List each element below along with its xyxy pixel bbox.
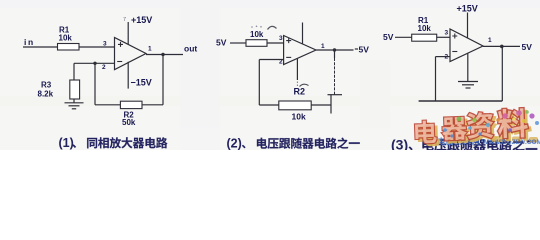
wire: bottom feedback rail circuit 3 xyxy=(419,100,503,102)
ground symbol circuit 1 xyxy=(65,103,84,109)
resistor R1 (10k) circuit 2 xyxy=(246,40,267,47)
svg-text:3: 3 xyxy=(279,35,283,42)
svg-text:2: 2 xyxy=(102,64,106,71)
ground symbol circuit 3 xyxy=(458,82,478,89)
op-amp U1 triangle with +/- marks xyxy=(115,38,147,70)
svg-text:1: 1 xyxy=(148,46,152,53)
junction: inverting input node circuit 1 xyxy=(93,62,96,65)
op-amp U2 triangle with +/- marks xyxy=(284,36,316,65)
wire: left feedback vertical circuit 3 xyxy=(435,57,437,101)
wire: output wire U2 pin 1 xyxy=(316,49,358,50)
wire: pin 2 wire left circuit 2 xyxy=(259,59,283,61)
svg-text:1: 1 xyxy=(321,43,325,50)
junction: output node circuit 2 xyxy=(333,48,336,51)
wire: feedback vertical from output node down (dashed) xyxy=(334,50,336,95)
wire: short vertical from tick to bottom wire xyxy=(330,95,332,105)
caption (1) non-inverting amplifier circuit xyxy=(59,136,168,150)
wire: right feedback vertical up to output node circuit 3 xyxy=(501,46,503,101)
wire: +15V supply line to U1 pin 7 xyxy=(127,22,129,44)
wire: horizontal tick at feedback bend xyxy=(328,94,343,96)
wire: R3 to ground stem xyxy=(73,99,75,103)
annotation: faint dots above 10k xyxy=(251,26,262,28)
svg-text:−15V: −15V xyxy=(131,78,152,88)
wire: ground stem from U3 bottom edge xyxy=(467,54,469,82)
wire: input wire from 5V through R1 to U3 pin 3 xyxy=(395,36,450,38)
svg-text:R2: R2 xyxy=(294,86,306,96)
caption (2) voltage follower circuit one xyxy=(227,137,360,151)
resistor R1 (10k) circuit 1 xyxy=(58,44,80,51)
wire: -15V supply line to U1 pin 4 xyxy=(127,62,129,89)
svg-text:5V: 5V xyxy=(522,42,533,52)
wire: pin 2 wire to R3 branch xyxy=(74,62,115,64)
svg-text:(1): (1) xyxy=(59,136,74,150)
svg-text:10k: 10k xyxy=(292,111,306,121)
wire: +15V supply line U3 xyxy=(467,13,469,39)
svg-text:(3): (3) xyxy=(391,137,408,151)
resistor R1 (10k) circuit 3 xyxy=(412,34,437,41)
wire: stub below bottom wire circuit 2 xyxy=(330,105,332,114)
wire: positive supply stub U2 xyxy=(302,23,304,44)
resistor R2 (10k) circuit 2 xyxy=(279,101,311,110)
svg-text:5V: 5V xyxy=(383,32,394,42)
svg-text:3: 3 xyxy=(445,30,449,37)
svg-text:out: out xyxy=(184,44,197,54)
wire: feedback vertical from R2 up to pin 2 node xyxy=(94,63,96,105)
svg-text:10k: 10k xyxy=(250,30,264,39)
junction: output node to feedback circuit 1 xyxy=(161,53,164,56)
wire: input wire from "in" to R1 to op-amp U1 pin 3 xyxy=(23,46,115,48)
svg-text:(2): (2) xyxy=(227,137,242,150)
wire: negative supply stub U2 xyxy=(296,58,298,86)
svg-text:R3: R3 xyxy=(41,81,52,90)
wire: output wire U3 pin 1 xyxy=(483,45,520,47)
watermark: blue subtext row xyxy=(438,137,540,146)
svg-text:50k: 50k xyxy=(122,118,136,127)
watermark: tan fragments in caption band xyxy=(424,136,538,143)
svg-text:7: 7 xyxy=(123,17,126,23)
svg-text:3: 3 xyxy=(103,41,107,48)
wire: input wire from 5V through 10k resistor to U2 pin 3 xyxy=(230,42,284,44)
svg-text:+15V: +15V xyxy=(131,15,152,25)
watermark: yellow shadow of logo 电器资料 xyxy=(418,111,532,146)
svg-text:10k: 10k xyxy=(59,34,73,43)
resistor R2 (50k) circuit 1 xyxy=(120,101,142,108)
watermark: red outline logo 电器资料 xyxy=(415,108,529,143)
caption (3) voltage follower circuit two xyxy=(391,137,537,153)
wire: pin 2 wire left circuit 3 xyxy=(436,56,451,58)
svg-text:5V: 5V xyxy=(359,45,370,55)
svg-text:1: 1 xyxy=(488,37,492,44)
junction: output node circuit 3 xyxy=(500,45,504,49)
op-amp U3 triangle with +/- marks xyxy=(450,29,483,62)
wire: left feedback vertical circuit 2 xyxy=(258,60,260,106)
svg-text:10k: 10k xyxy=(418,24,432,33)
wire: feedback vertical from output node down to R2 xyxy=(162,55,164,105)
svg-text:8.2k: 8.2k xyxy=(38,90,54,99)
wire: bottom feedback wire through R2 circuit 1 xyxy=(95,104,163,106)
svg-text:+15V: +15V xyxy=(457,3,478,13)
svg-text:5V: 5V xyxy=(216,37,227,47)
resistor R3 (8.2k) vertical xyxy=(70,80,80,99)
annotation: small tilde over R2 label circuit 2 xyxy=(300,84,309,86)
annotation: handwritten tilde mark xyxy=(268,26,277,29)
svg-text:in: in xyxy=(24,37,35,47)
wire: drop from pin 2 wire to R3 xyxy=(73,63,75,80)
watermark: colorful flower dots xyxy=(443,110,539,137)
wire: bottom feedback wire through R2 circuit 2 xyxy=(259,104,331,106)
wire: output wire U1 pin 1 to out xyxy=(146,54,183,56)
